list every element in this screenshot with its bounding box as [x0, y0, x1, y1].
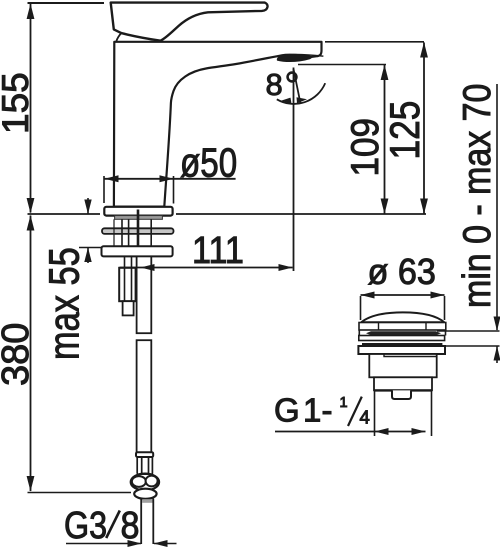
base plate: [104, 207, 172, 216]
drain dark gap lens: [366, 331, 441, 335]
deck line left: [28, 213, 101, 215]
svg-text:8: 8: [266, 67, 283, 102]
supply hose lower segment: [137, 340, 152, 452]
hose end nut body: [131, 474, 159, 491]
dimension max 55: [87, 198, 89, 263]
hose end collar: [136, 452, 153, 457]
dimension 125 line: [423, 43, 425, 214]
threaded rod below washer: [124, 256, 126, 301]
dimension 380 bottom extension line: [28, 492, 132, 494]
dimension min0-max70 lines: [496, 84, 498, 363]
slash of G3/8: [106, 511, 120, 539]
8 degree arc: [277, 83, 325, 104]
dimension G3/8: [66, 543, 177, 545]
nut right lobe: [146, 476, 158, 487]
dimension G1-1/4 line: [275, 431, 426, 433]
fraction slash of 1/4: [348, 397, 362, 426]
lever-to-body joint line: [116, 33, 121, 42]
washer 1 (gray): [102, 228, 174, 234]
G3/8 pipe: [141, 499, 153, 545]
svg-text:min 0 - max 70: min 0 - max 70: [455, 84, 499, 308]
drain cap dome: [361, 312, 445, 322]
8 degree vertex lines: [293, 68, 295, 272]
mounting nut: [119, 268, 135, 301]
aerator dark lens at spout tip: [277, 55, 312, 63]
dimension G1-1/4 extension lines: [375, 391, 432, 436]
spout underside thin line to tip: [282, 54, 323, 56]
dimension 380 line: [30, 216, 32, 492]
svg-text:G: G: [274, 392, 300, 429]
svg-text:380: 380: [0, 323, 37, 386]
svg-text:111: 111: [192, 228, 244, 271]
rod end below nut: [123, 301, 134, 315]
svg-text:G3: G3: [64, 505, 107, 547]
svg-text:1: 1: [340, 395, 348, 411]
faucet body: [114, 42, 322, 207]
svg-text:125: 125: [382, 101, 429, 160]
drain band sides: [359, 330, 445, 336]
drain cap chord: [361, 321, 445, 323]
svg-text:ø 63: ø 63: [368, 252, 436, 292]
drain dark line 2: [362, 343, 442, 346]
drain lower cylinder: [374, 377, 432, 390]
extension line for 109: [298, 64, 386, 66]
min0-max70 reference lines: [437, 331, 500, 346]
nut top edge line: [137, 473, 153, 475]
svg-text:max 55: max 55: [41, 247, 88, 360]
dimension 111: [120, 267, 293, 269]
nut bottom ellipse: [134, 489, 156, 499]
drain cap rim band: [359, 323, 446, 331]
deck line right: [176, 213, 426, 215]
drain flange band 2: [358, 346, 445, 354]
supply hose upper segment: [137, 256, 152, 333]
svg-text:155: 155: [0, 72, 36, 134]
8 degree arc arrows: [281, 98, 292, 104]
dimension o63 extension lines: [361, 296, 445, 320]
svg-text:109: 109: [342, 118, 386, 177]
drain bottom stub: [392, 390, 411, 399]
drain flange band: [359, 336, 445, 341]
rubber gasket (gray): [115, 216, 163, 220]
drain upper cylinder: [369, 354, 436, 377]
svg-text:8: 8: [121, 503, 140, 546]
nut left lobe: [132, 476, 146, 487]
svg-text:1: 1: [303, 392, 321, 429]
hose end neck: [137, 457, 152, 474]
dimension 109 line: [384, 65, 386, 214]
svg-text:ø50: ø50: [180, 139, 237, 185]
dimension o63 line: [361, 294, 445, 296]
extension line for 125 (spout top to right): [325, 41, 424, 43]
faucet lever handle: [111, 3, 268, 41]
dimension o50: [104, 176, 174, 204]
pipe top shading: [142, 499, 152, 503]
vertical studs and hose lines under deck: [113, 219, 115, 246]
washer 2: [102, 246, 173, 256]
svg-text:-: -: [322, 392, 333, 429]
dimension 155 extension line top: [28, 2, 105, 4]
dimension 155 line: [30, 4, 32, 213]
svg-text:4: 4: [360, 407, 370, 428]
